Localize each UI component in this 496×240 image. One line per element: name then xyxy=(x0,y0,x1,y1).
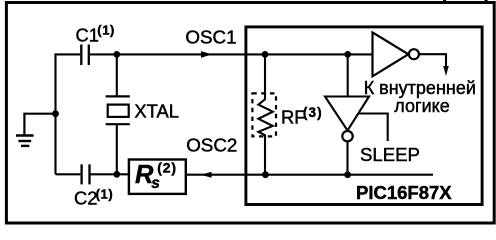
wire OSC2 horizontal xyxy=(187,174,433,176)
chip box PIC16F87X xyxy=(246,27,482,205)
wire left vertical xyxy=(54,53,56,174)
wire OSC1 horizontal xyxy=(90,53,373,55)
wire bottom horizontal left xyxy=(56,173,81,175)
buffer triangle SLEEP (inverted) xyxy=(325,97,369,131)
inverter U1 xyxy=(373,32,409,76)
svg-text:(3): (3) xyxy=(303,105,323,120)
crystal XTAL xyxy=(106,95,130,97)
svg-text:(1): (1) xyxy=(97,23,115,38)
wire SLEEP enable xyxy=(359,114,388,142)
wire ground branch xyxy=(24,114,55,135)
wire inverter output xyxy=(419,54,446,66)
svg-text:OSC1: OSC1 xyxy=(185,26,236,47)
buffer bubble xyxy=(342,131,352,141)
wire XTAL bottom lead xyxy=(116,125,118,174)
wire buffer bottom lead xyxy=(346,141,348,174)
ground xyxy=(16,136,34,146)
svg-text:(2): (2) xyxy=(157,160,177,176)
svg-text:SLEEP: SLEEP xyxy=(360,144,420,165)
arrow on OSC1 wire xyxy=(201,51,212,58)
wire C1 left xyxy=(55,53,81,55)
svg-text:(1): (1) xyxy=(96,186,114,201)
node dot XTAL bottom xyxy=(113,171,120,178)
svg-text:OSC2: OSC2 xyxy=(186,134,237,155)
arrow inverter output down xyxy=(443,66,449,76)
wire buffer top lead xyxy=(347,54,349,96)
node dot RF top xyxy=(262,51,269,58)
svg-text:RF: RF xyxy=(281,107,306,128)
capacitor C1 xyxy=(80,45,82,66)
svg-text:XTAL: XTAL xyxy=(134,100,179,121)
svg-text:C1: C1 xyxy=(76,25,99,46)
svg-text:логике: логике xyxy=(394,96,449,116)
tick mark top 1 xyxy=(443,0,446,3)
node dot buffer bottom xyxy=(344,171,351,178)
arrow on OSC2 wire xyxy=(201,172,212,178)
resistor RF zigzag xyxy=(258,99,272,135)
dashed box around RF xyxy=(252,93,276,136)
svg-text:C2: C2 xyxy=(74,188,97,209)
tick mark top 2 xyxy=(485,0,488,3)
node dot buffer top xyxy=(344,51,351,58)
inverter bubble xyxy=(409,49,419,59)
resistor RF vertical wire xyxy=(264,54,266,100)
svg-text:К внутренней: К внутренней xyxy=(364,78,476,98)
node dot ground junction xyxy=(52,110,59,117)
node dot RF bottom xyxy=(262,171,269,178)
resistor box Rs xyxy=(129,160,186,194)
wire XTAL top lead xyxy=(116,54,118,95)
svg-text:PIC16F87X: PIC16F87X xyxy=(356,182,452,203)
wire C2 to Rs xyxy=(91,173,128,175)
svg-text:s: s xyxy=(151,175,160,192)
capacitor C2 xyxy=(80,164,82,184)
node dot XTAL top xyxy=(113,51,120,58)
